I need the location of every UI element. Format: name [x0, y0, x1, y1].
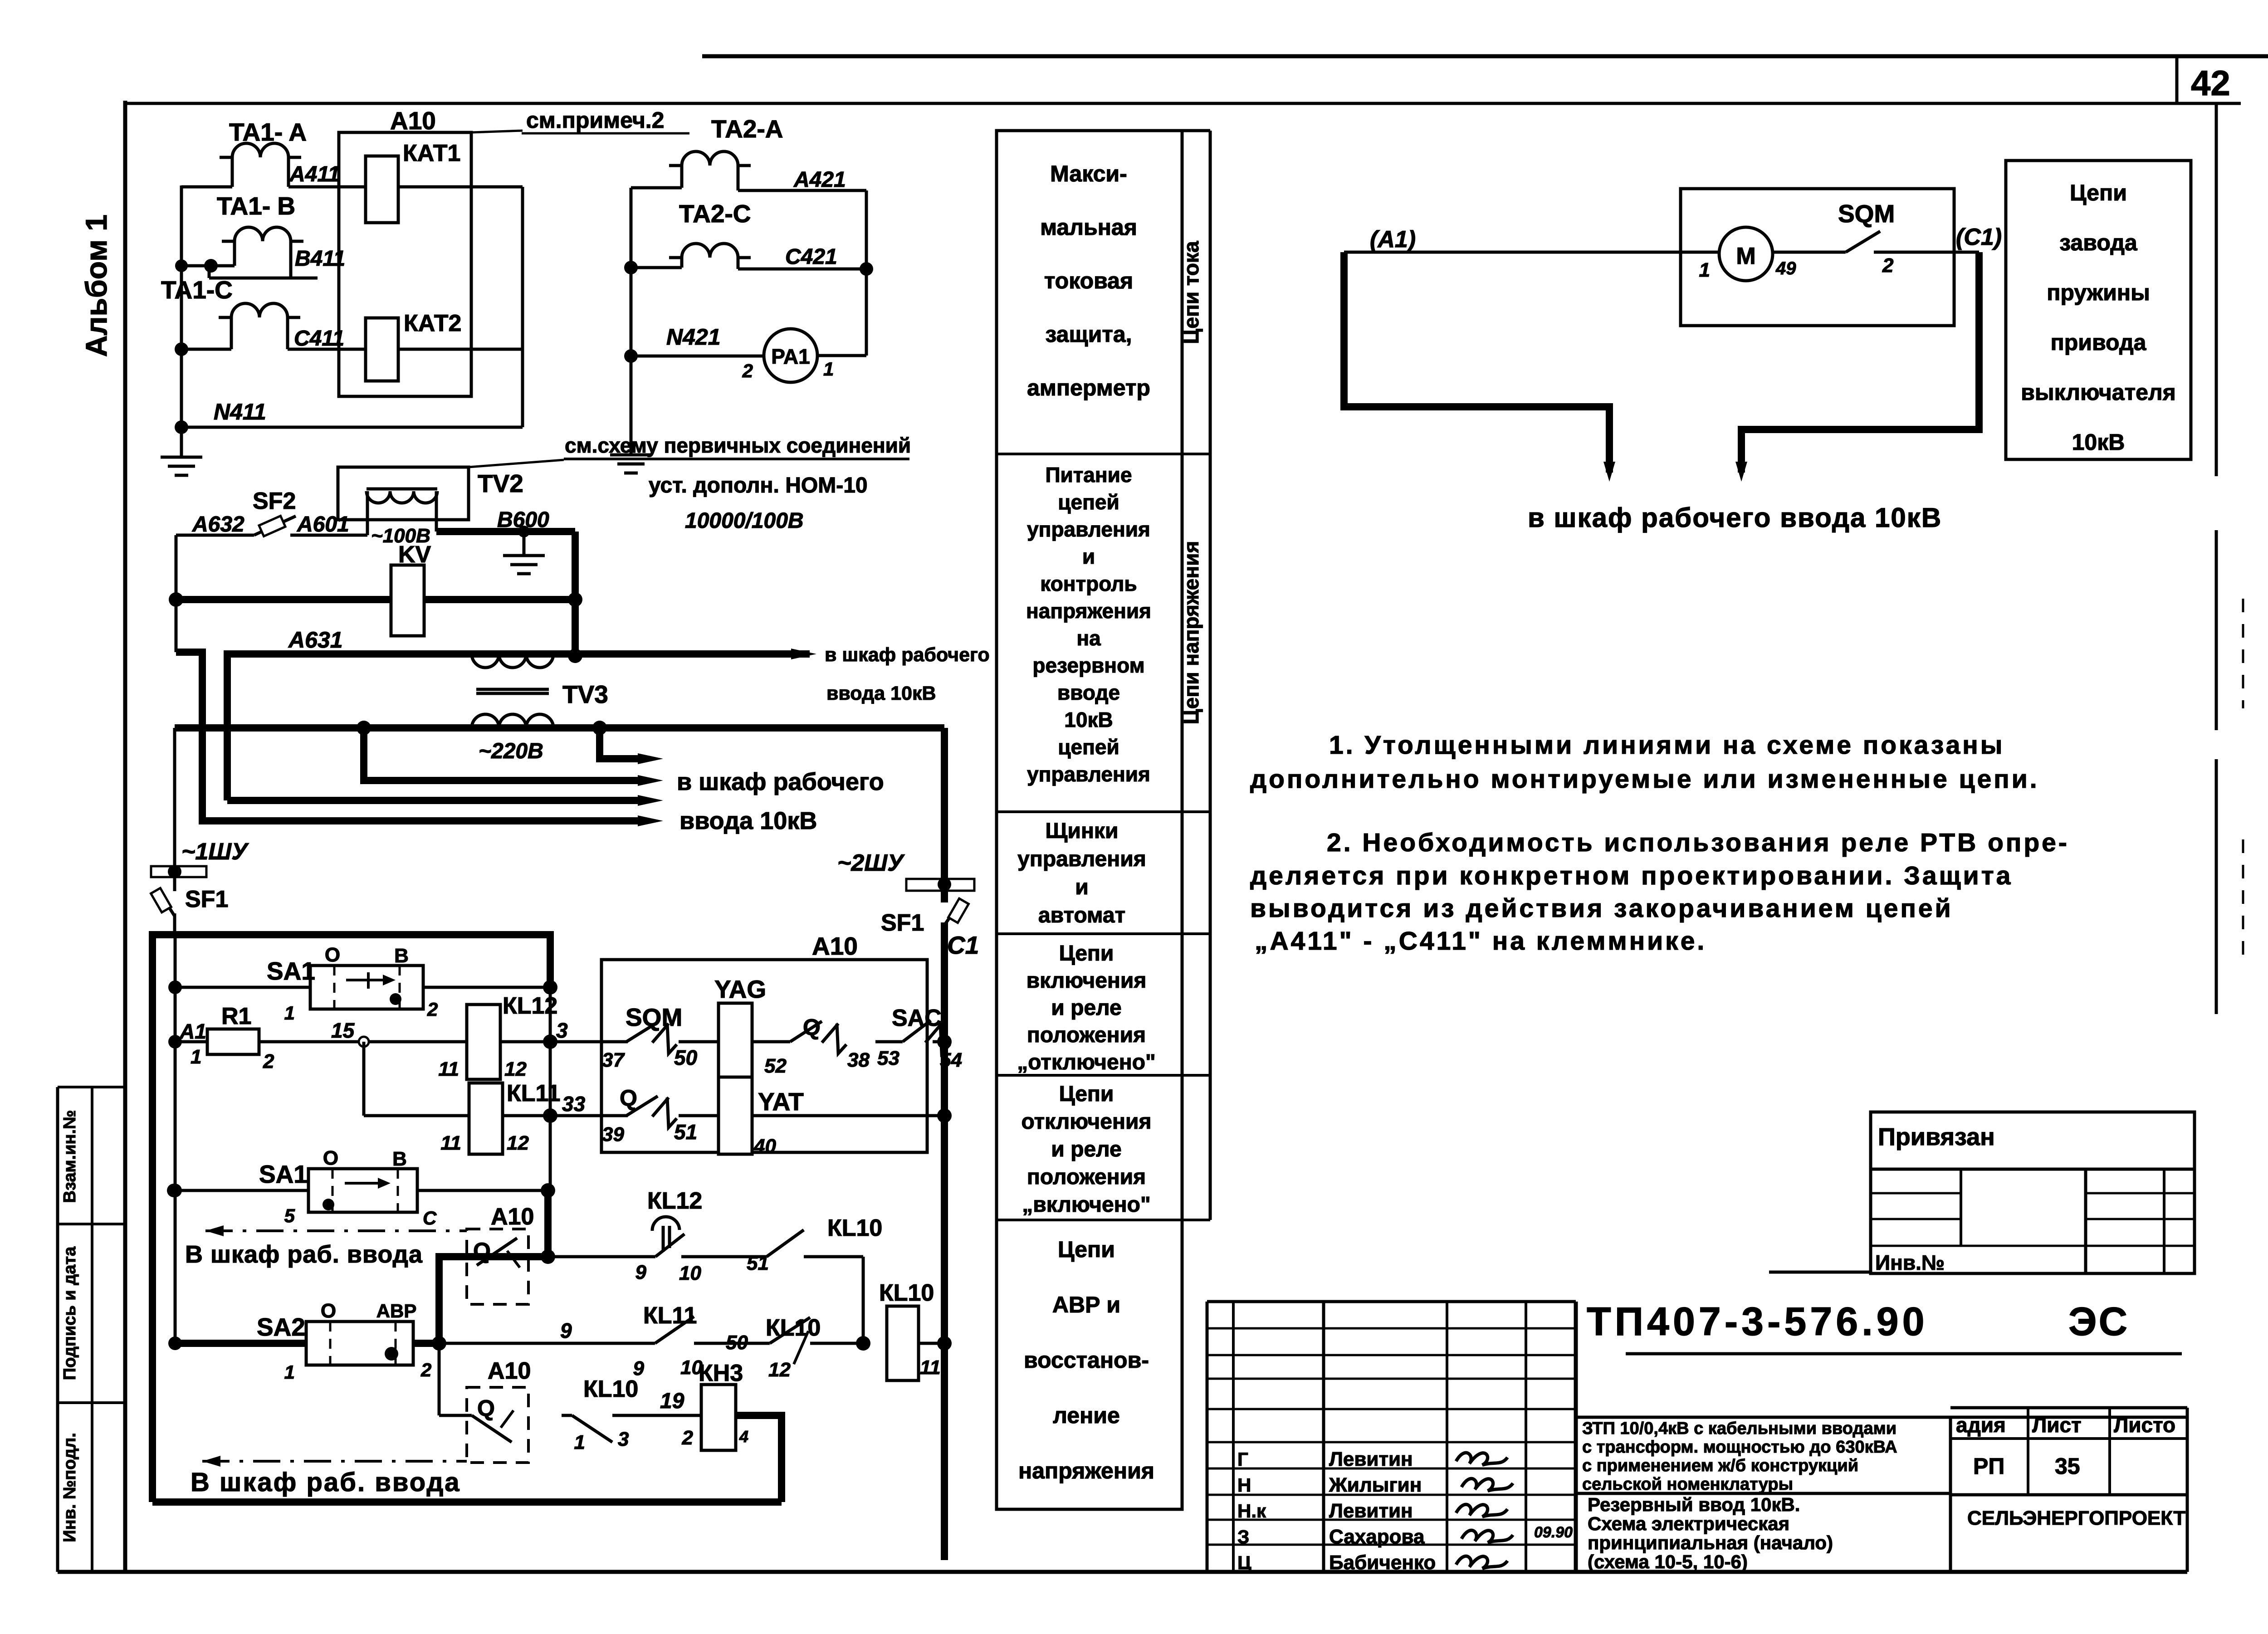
svg-text:автомат: автомат	[1038, 903, 1125, 927]
svg-text:А1: А1	[179, 1019, 206, 1043]
svg-text:О: О	[321, 1300, 336, 1322]
svg-text:(схема 10-5, 10-6): (схема 10-5, 10-6)	[1588, 1551, 1748, 1572]
svg-text:SF2: SF2	[253, 488, 296, 514]
svg-text:15: 15	[331, 1019, 355, 1042]
svg-text:Схема электрическая: Схема электрическая	[1588, 1513, 1789, 1534]
svg-text:(А1): (А1)	[1370, 226, 1416, 253]
svg-text:Q: Q	[477, 1395, 495, 1421]
vertical link right nodes	[549, 987, 552, 1190]
svg-text:1: 1	[574, 1431, 585, 1454]
frame bottom border	[58, 1570, 2187, 1574]
svg-text:54: 54	[940, 1049, 962, 1071]
svg-text:SA2: SA2	[257, 1313, 305, 1341]
svg-text:КL11: КL11	[643, 1302, 697, 1329]
svg-text:19: 19	[660, 1389, 684, 1413]
svg-text:О: О	[323, 1147, 338, 1169]
svg-text:Резервный ввод 10кВ.: Резервный ввод 10кВ.	[1588, 1494, 1800, 1515]
svg-text:КН3: КН3	[699, 1360, 743, 1386]
leader to TV2 note	[469, 460, 564, 467]
svg-text:В шкаф раб. ввода: В шкаф раб. ввода	[191, 1468, 461, 1497]
svg-text:А10: А10	[491, 1204, 534, 1230]
svg-text:отключения: отключения	[1022, 1110, 1152, 1134]
svg-text:39: 39	[602, 1123, 624, 1146]
wire KH3 to bottom rail	[736, 1415, 782, 1502]
svg-text:52: 52	[764, 1055, 787, 1077]
svg-text:37: 37	[602, 1049, 625, 1071]
svg-text:Цепи: Цепи	[1059, 1082, 1114, 1106]
svg-text:9: 9	[560, 1319, 572, 1342]
relay KV line	[176, 596, 575, 603]
svg-text:N421: N421	[666, 324, 721, 350]
svg-text:51: 51	[747, 1252, 769, 1274]
inner bus left	[174, 935, 177, 1343]
svg-text:3: 3	[618, 1428, 629, 1450]
svg-text:ввода 10кВ: ввода 10кВ	[679, 807, 817, 834]
svg-text:„отключено": „отключено"	[1017, 1050, 1156, 1074]
svg-text:РП: РП	[1973, 1454, 2004, 1479]
frame left border	[123, 101, 127, 1572]
svg-text:положения: положения	[1027, 1165, 1146, 1189]
svg-text:1: 1	[823, 358, 834, 380]
svg-text:в шкаф рабочего: в шкаф рабочего	[677, 768, 884, 795]
dash-dot cable to working input (upper)	[205, 1225, 224, 1236]
wire 220V line	[175, 724, 944, 732]
node 15 drop to row C	[362, 1042, 366, 1116]
svg-text:см.примеч.2: см.примеч.2	[526, 107, 664, 133]
svg-text:Q: Q	[620, 1085, 637, 1111]
svg-text:КL12: КL12	[647, 1188, 702, 1214]
table divider rows	[997, 453, 1210, 455]
svg-text:А10: А10	[390, 107, 436, 135]
svg-text:Цепи: Цепи	[1058, 1237, 1115, 1262]
title block columns left part	[1232, 1302, 1235, 1572]
svg-text:35: 35	[2055, 1454, 2080, 1479]
svg-text:N411: N411	[214, 399, 266, 424]
svg-text:СЕЛЬЭНЕРГОПРОЕКТ: СЕЛЬЭНЕРГОПРОЕКТ	[1967, 1507, 2185, 1529]
svg-text:2: 2	[682, 1427, 694, 1449]
svg-text:КАТ2: КАТ2	[404, 310, 461, 337]
svg-text:выключателя: выключателя	[2021, 380, 2176, 405]
svg-text:Цепи напряжения: Цепи напряжения	[1179, 541, 1203, 725]
svg-text:с применением ж/б конструкций: с применением ж/б конструкций	[1582, 1456, 1858, 1475]
dash-dot cable to working input (lower)	[499, 1447, 499, 1462]
wire SA2 to KL11 contact	[439, 1342, 655, 1345]
sheet top border double line	[702, 54, 2268, 59]
svg-text:амперметр: амперметр	[1027, 375, 1150, 400]
svg-text:с трансформ. мощностью до 630к: с трансформ. мощностью до 630кВА	[1582, 1438, 1897, 1457]
svg-text:TV3: TV3	[562, 680, 608, 708]
svg-text:1: 1	[284, 1002, 295, 1024]
svg-text:А421: А421	[793, 168, 846, 192]
svg-text:10: 10	[679, 1262, 701, 1284]
svg-text:напряжения: напряжения	[1026, 599, 1151, 623]
svg-text:ТП407-3-576.90: ТП407-3-576.90	[1587, 1299, 1928, 1344]
bus from SF2 down-left vertical	[175, 535, 178, 652]
svg-text:О: О	[325, 944, 340, 966]
bus 220V to 2SHU right vertical	[941, 728, 948, 879]
svg-text:ТА2-С: ТА2-С	[679, 200, 751, 228]
privyazan table	[1871, 1112, 2195, 1273]
switch SA1 row wire	[175, 986, 310, 989]
svg-text:10кВ: 10кВ	[2072, 429, 2125, 455]
svg-text:деляется при конкретном про: деляется при конкретном проектировании. …	[1250, 861, 2013, 890]
svg-text:53: 53	[877, 1047, 899, 1069]
motor M	[1719, 227, 1773, 281]
svg-text:А10: А10	[488, 1358, 531, 1384]
svg-text:защита,: защита,	[1045, 322, 1132, 347]
svg-text:38: 38	[847, 1049, 870, 1071]
svg-text:пружины: пружины	[2047, 280, 2150, 305]
svg-text:50: 50	[674, 1046, 698, 1069]
svg-text:в шкаф рабочего ввода 10кВ: в шкаф рабочего ввода 10кВ	[1528, 502, 1942, 533]
svg-text:Макси-: Макси-	[1050, 161, 1127, 186]
wire YAG to Q	[752, 1040, 790, 1044]
svg-text:2: 2	[427, 999, 438, 1020]
svg-text:управления: управления	[1017, 847, 1146, 871]
svg-text:Листо: Листо	[2114, 1413, 2175, 1437]
svg-text:КАТ1: КАТ1	[403, 140, 460, 166]
svg-text:С: С	[423, 1207, 437, 1229]
svg-text:3: 3	[556, 1019, 568, 1042]
svg-text:В шкаф раб. ввода: В шкаф раб. ввода	[185, 1241, 423, 1268]
svg-text:уст. дополн. НОМ-10: уст. дополн. НОМ-10	[649, 473, 868, 498]
svg-text:10кВ: 10кВ	[1064, 708, 1113, 732]
switch SA2 row (AVR)	[174, 1340, 306, 1347]
svg-text:R1: R1	[221, 1003, 251, 1029]
svg-text:~1ШУ: ~1ШУ	[181, 839, 249, 865]
wire KL11 to node 33	[503, 1114, 601, 1117]
svg-text:SA1: SA1	[267, 957, 315, 985]
svg-text:11: 11	[920, 1356, 941, 1379]
node bus N411 left vertical	[180, 185, 183, 456]
svg-text:1. Утолщенными линиями на сх: 1. Утолщенными линиями на схеме показаны	[1329, 731, 2004, 760]
signatures	[1456, 1453, 1507, 1465]
svg-text:Цепи тока: Цепи тока	[1179, 241, 1203, 344]
svg-text:С1: С1	[947, 931, 979, 959]
thick link SA1 row to Q row	[439, 1190, 548, 1343]
ground TA2	[610, 454, 652, 457]
svg-text:SF1: SF1	[881, 910, 924, 936]
bus to SF1 left	[173, 728, 176, 881]
svg-text:~2ШУ: ~2ШУ	[837, 850, 905, 876]
svg-text:вводе: вводе	[1057, 681, 1120, 704]
svg-text:КL11: КL11	[507, 1080, 560, 1107]
svg-text:В: В	[394, 945, 409, 967]
wire A411 inside box	[398, 185, 523, 189]
wire Q to junction	[526, 1255, 548, 1258]
bus elbow to arrow row 4	[176, 652, 644, 821]
svg-text:Подпись и дата: Подпись и дата	[60, 1246, 79, 1380]
svg-text:YAG: YAG	[714, 975, 766, 1003]
svg-text:выводится из действия закор: выводится из действия закорачиванием цеп…	[1250, 894, 1953, 923]
svg-text:З: З	[1237, 1526, 1249, 1547]
info box: spring winding circuits	[2006, 161, 2191, 459]
stage sheet header	[1950, 1406, 2187, 1410]
ground B600	[523, 532, 526, 554]
svg-text:Инв.№: Инв.№	[1875, 1251, 1945, 1274]
svg-text:SF1: SF1	[185, 886, 228, 912]
resistor R1	[207, 1029, 259, 1054]
svg-text:В: В	[392, 1148, 407, 1170]
drop to row F	[862, 1257, 865, 1343]
svg-text:А10: А10	[812, 932, 858, 960]
svg-text:в шкаф рабочего: в шкаф рабочего	[825, 644, 990, 666]
svg-text:Левитин: Левитин	[1329, 1500, 1413, 1522]
wire to KL12 contact	[548, 1255, 655, 1258]
svg-text:ввода 10кВ: ввода 10кВ	[826, 683, 936, 704]
svg-text:КL10: КL10	[583, 1376, 638, 1402]
svg-text:~220В: ~220В	[479, 739, 543, 763]
svg-text:и реле: и реле	[1051, 1137, 1121, 1161]
svg-text:(С1): (С1)	[1956, 224, 2002, 250]
svg-text:на: на	[1076, 626, 1101, 650]
svg-text:TV2: TV2	[478, 469, 523, 498]
link SA2 area down to Q row G	[438, 1343, 441, 1415]
svg-text:цепей: цепей	[1058, 490, 1119, 514]
svg-text:Г: Г	[1237, 1449, 1248, 1470]
svg-text:АВР: АВР	[376, 1300, 417, 1322]
svg-text:цепей: цепей	[1058, 735, 1119, 759]
svg-text:50: 50	[726, 1332, 748, 1354]
svg-text:С421: С421	[785, 245, 837, 269]
switch SA1 lower row	[167, 1184, 181, 1197]
left margin column lines	[56, 1087, 59, 1572]
svg-text:Питание: Питание	[1045, 463, 1132, 487]
svg-text:TA1- B: TA1- B	[217, 192, 295, 220]
svg-text:М: М	[1736, 243, 1755, 269]
svg-text:и: и	[1082, 545, 1095, 568]
svg-text:ТА2-А: ТА2-А	[711, 115, 783, 143]
wire YAT to bus C1	[752, 1114, 944, 1117]
svg-text:SQM: SQM	[1838, 200, 1895, 228]
svg-text:КL10: КL10	[879, 1280, 934, 1306]
title block rows left part	[1207, 1327, 1576, 1330]
svg-text:ление: ление	[1053, 1403, 1120, 1428]
paper edge dash marks right	[2242, 599, 2244, 708]
svg-text:Бабиченко: Бабиченко	[1329, 1551, 1436, 1574]
control loop top rail	[152, 935, 550, 1502]
svg-text:„включено": „включено"	[1022, 1193, 1150, 1217]
svg-text:Q: Q	[473, 1238, 491, 1263]
function table frame	[997, 131, 1182, 1509]
return wire vertical	[521, 187, 524, 427]
svg-text:ЭС: ЭС	[2068, 1299, 2129, 1344]
svg-text:контроль: контроль	[1040, 572, 1137, 595]
bus C1 vertical	[941, 922, 948, 1560]
svg-text:42: 42	[2191, 63, 2230, 103]
svg-text:А631: А631	[288, 627, 343, 653]
svg-text:А601: А601	[297, 512, 349, 537]
svg-text:1: 1	[284, 1361, 295, 1383]
svg-text:SA1: SA1	[259, 1160, 308, 1188]
wire to KH3	[612, 1414, 701, 1417]
leader to note 2	[471, 131, 523, 132]
svg-text:А632: А632	[192, 512, 244, 537]
svg-text:Щинки: Щинки	[1046, 819, 1119, 843]
TA2 bus vertical	[630, 188, 633, 454]
svg-text:YAT: YAT	[758, 1088, 804, 1116]
arrow row 3	[227, 797, 644, 804]
ammeter PA1	[764, 329, 817, 382]
svg-text:дополнительно монтируемые ил: дополнительно монтируемые или измененные…	[1250, 765, 2039, 794]
svg-text:10000/100В: 10000/100В	[685, 509, 804, 533]
svg-text:1: 1	[191, 1046, 201, 1068]
frame right border (faded segments)	[2215, 103, 2218, 476]
wire node15 to KL12	[369, 1040, 467, 1044]
svg-text:и: и	[1075, 875, 1089, 899]
svg-text:Ц: Ц	[1237, 1552, 1251, 1573]
svg-text:49: 49	[1775, 259, 1796, 278]
svg-text:Левитин: Левитин	[1329, 1448, 1413, 1470]
svg-text:2: 2	[263, 1050, 274, 1073]
svg-text:Н: Н	[1237, 1474, 1251, 1496]
svg-text:9: 9	[635, 1261, 647, 1283]
svg-text:адия: адия	[1956, 1413, 2006, 1437]
svg-text:см.схему первичных соединений: см.схему первичных соединений	[565, 434, 911, 457]
description box	[1576, 1416, 2187, 1419]
svg-text:SQM: SQM	[626, 1003, 682, 1031]
svg-text:Н.к: Н.к	[1237, 1500, 1266, 1522]
svg-text:12: 12	[504, 1058, 527, 1080]
svg-text:завода: завода	[2059, 230, 2138, 255]
svg-text:токовая: токовая	[1044, 268, 1133, 293]
svg-text:11: 11	[438, 1058, 459, 1080]
svg-text:напряжения: напряжения	[1018, 1458, 1154, 1483]
svg-text:РА1: РА1	[771, 345, 810, 368]
svg-text:Лист: Лист	[2032, 1413, 2082, 1437]
svg-text:4: 4	[739, 1427, 748, 1446]
svg-text:мальная: мальная	[1040, 215, 1137, 240]
svg-text:SAC: SAC	[892, 1005, 942, 1031]
title block outer	[1207, 1300, 1576, 1303]
svg-text:ЗТП 10/0,4кВ с кабельными ввод: ЗТП 10/0,4кВ с кабельными вводами	[1582, 1419, 1897, 1438]
svg-text:2: 2	[742, 360, 753, 381]
svg-text:Инв. №подл.: Инв. №подл.	[60, 1433, 79, 1542]
thick cable C1 down	[1741, 252, 1979, 473]
node 15	[359, 1037, 369, 1047]
svg-text:Привязан: Привязан	[1878, 1123, 1995, 1151]
svg-text:12: 12	[768, 1359, 791, 1381]
wire to node 15	[259, 1040, 359, 1044]
stray line left of privyazan	[1769, 1271, 1871, 1274]
svg-text:2. Необходимость использовани: 2. Необходимость использования реле РТВ …	[1327, 828, 2069, 857]
arrow row 2	[364, 728, 644, 780]
svg-text:12: 12	[507, 1132, 529, 1154]
svg-text:„А411" - „С411" на клеммнике.: „А411" - „С411" на клеммнике.	[1255, 927, 1706, 956]
svg-text:TA1-C: TA1-C	[161, 276, 233, 304]
svg-text:Альбом 1: Альбом 1	[79, 215, 113, 357]
svg-text:С411: С411	[294, 327, 344, 351]
svg-text:Цепи: Цепи	[1059, 941, 1114, 966]
svg-text:управления: управления	[1027, 762, 1150, 786]
wire C411 to return	[398, 348, 523, 351]
svg-text:33: 33	[562, 1092, 586, 1116]
svg-text:40: 40	[753, 1135, 776, 1157]
svg-text:А411: А411	[289, 162, 340, 186]
svg-text:Сахарова: Сахарова	[1329, 1526, 1425, 1548]
svg-text:включения: включения	[1026, 969, 1147, 993]
svg-text:2: 2	[1882, 254, 1894, 277]
svg-text:принципиальная (начало): принципиальная (начало)	[1588, 1532, 1833, 1553]
svg-text:резервном: резервном	[1032, 654, 1144, 677]
svg-text:Цепи: Цепи	[2070, 180, 2127, 205]
svg-text:управления: управления	[1027, 517, 1150, 541]
svg-text:Взам.ин.№: Взам.ин.№	[60, 1110, 79, 1203]
arrow row 1	[600, 728, 644, 759]
svg-text:09.90: 09.90	[1534, 1524, 1573, 1541]
page number box 42	[2175, 56, 2179, 103]
svg-text:TA1- A: TA1- A	[229, 118, 307, 146]
svg-text:Жилыгин: Жилыгин	[1329, 1474, 1422, 1496]
svg-text:и реле: и реле	[1051, 996, 1121, 1020]
svg-text:11: 11	[440, 1132, 461, 1154]
svg-text:АВР и: АВР и	[1052, 1292, 1120, 1317]
svg-text:51: 51	[674, 1120, 697, 1144]
bottom rail	[152, 1498, 782, 1506]
ground TA1	[161, 456, 202, 459]
motor enclosure box	[1681, 189, 1954, 326]
svg-text:КL10: КL10	[827, 1215, 882, 1241]
wire KL12 to node 3	[500, 1040, 601, 1044]
svg-text:5: 5	[284, 1205, 295, 1226]
svg-text:2: 2	[420, 1359, 431, 1380]
thick cable A1 down	[1344, 252, 1609, 473]
wire to KL10 contact	[681, 1255, 767, 1258]
svg-text:привода: привода	[2051, 330, 2147, 355]
svg-text:положения: положения	[1027, 1023, 1146, 1047]
thick bus right vertical to KV line	[572, 532, 579, 656]
svg-text:сельской номенклатуры: сельской номенклатуры	[1582, 1475, 1793, 1494]
svg-text:восстанов-: восстанов-	[1024, 1347, 1149, 1373]
svg-text:1: 1	[1699, 259, 1710, 281]
